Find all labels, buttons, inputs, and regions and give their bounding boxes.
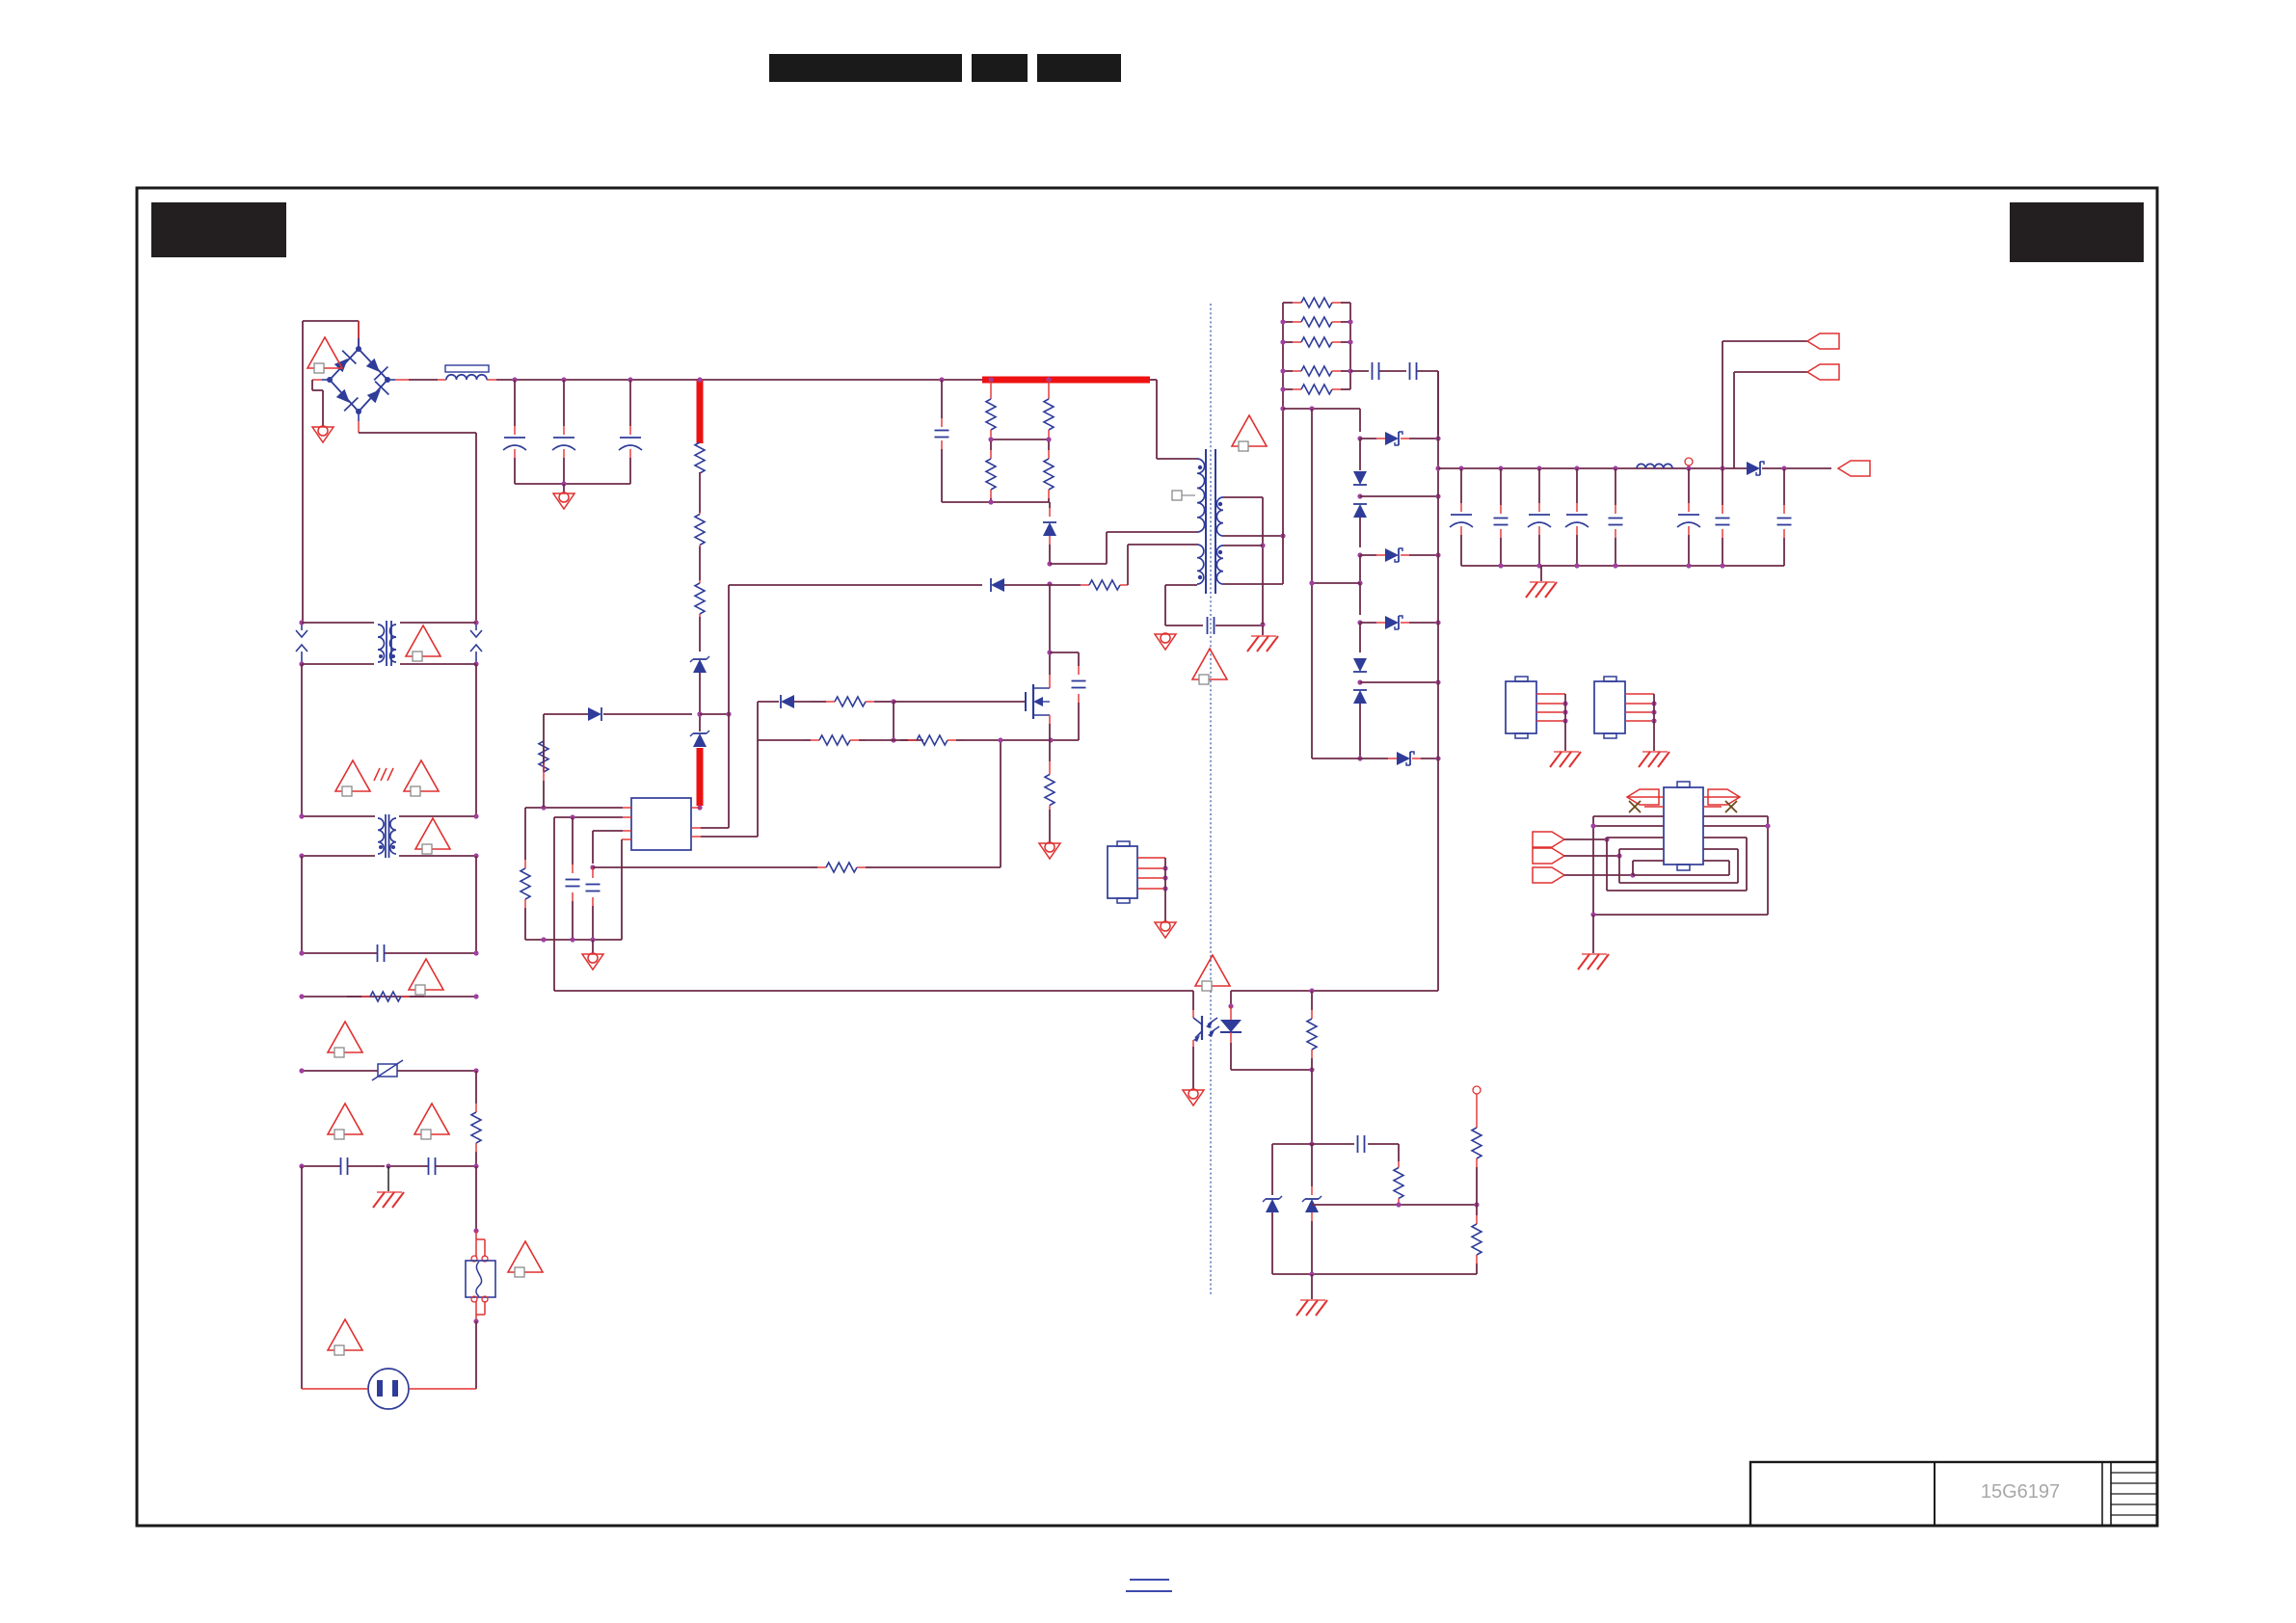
startup resistor R6: [543, 781, 545, 808]
node zd mid: [697, 711, 702, 716]
test point circle: [1685, 458, 1693, 466]
node rail c: [627, 377, 632, 382]
wire tap column: [1311, 409, 1313, 758]
resistor stack R21: [1283, 302, 1293, 304]
wire drain to primary: [1050, 563, 1107, 565]
diode rectifier D21: [1360, 438, 1376, 439]
ground input caps: [553, 493, 574, 509]
resistor R12: [900, 739, 908, 741]
wire: [699, 546, 701, 580]
inductor out L31: [1637, 464, 1672, 468]
opto light arrows: [1208, 1018, 1217, 1024]
title bar redacted blocks: [769, 54, 962, 82]
wire zd tap: [1360, 495, 1438, 497]
wire loop a: [1564, 838, 1607, 840]
node drain link: [1047, 561, 1052, 566]
wire stack left rail: [1282, 303, 1284, 409]
ic reference U3: [1506, 681, 1536, 733]
node pin3: [590, 865, 595, 869]
wire aux up: [1127, 545, 1129, 585]
node fuse bottom: [473, 1318, 478, 1323]
transformer T1 secondary winding B: [1216, 545, 1223, 584]
wire left rail lower: [301, 1166, 303, 1389]
wire ac top: [303, 320, 359, 322]
test point circle fb: [1473, 1086, 1481, 1094]
resistor divider Rd: [1048, 441, 1050, 450]
wire gate stub down: [893, 702, 894, 740]
wire u1 right pin vcc: [691, 807, 700, 809]
resistor gate R10: [811, 701, 826, 703]
wire cathode rail: [1437, 371, 1439, 991]
warning triangle cx1: [409, 959, 443, 990]
diode rectifier D22: [1360, 554, 1376, 556]
wire feedback long line right: [1231, 990, 1438, 992]
capacitor C8: [592, 867, 594, 878]
resistor stack R23: [1283, 341, 1293, 343]
common mode choke L1: [302, 622, 374, 624]
common mode choke L3: [302, 815, 375, 817]
resistor stack R25: [1283, 388, 1293, 390]
capacitor snub C22: [1409, 362, 1411, 380]
thermal fuse F1: [475, 1231, 477, 1257]
ground u1: [582, 954, 603, 970]
ground opto: [1183, 1090, 1204, 1105]
thick red vcc segment: [697, 748, 704, 806]
transformer T1 core: [1205, 449, 1207, 594]
wire tap row: [1283, 408, 1360, 410]
earth output: [1540, 566, 1542, 582]
left rail wire: [301, 664, 303, 816]
capacitor out C33: [1536, 466, 1541, 470]
capacitor CY1: [302, 1165, 340, 1167]
resistor start chain R3: [699, 580, 701, 583]
warning triangle pair upper: [335, 760, 370, 791]
ground primary bridge: [311, 380, 313, 390]
connector lug J6: [1533, 832, 1564, 847]
node cm1 tr: [473, 620, 478, 625]
capacitor snub C10: [1050, 652, 1079, 653]
warning triangle plug: [328, 1319, 362, 1350]
capacitor C input 2: [563, 380, 565, 426]
warning triangle rx1: [328, 1022, 362, 1052]
wire loop c: [1564, 874, 1633, 876]
wire feedback gnd: [1590, 912, 1595, 917]
wire fuse to plug: [475, 1321, 477, 1389]
capacitor C input 1: [514, 380, 516, 426]
wire: [699, 673, 701, 714]
resistor start chain R2: [699, 513, 701, 515]
resistor fb R42: [1398, 1161, 1400, 1168]
connector lug J8: [1533, 867, 1564, 883]
resistor source sense R13: [1049, 740, 1051, 761]
wire: [699, 617, 701, 652]
wire sense line: [593, 866, 811, 868]
wire: [1359, 583, 1361, 615]
connector lug J1: [1807, 333, 1839, 349]
ground aux: [1155, 634, 1176, 650]
wire feedback long line left: [554, 990, 1193, 992]
capacitor out C38: [1781, 466, 1786, 470]
warning triangle choke L1: [406, 625, 441, 656]
wire: [1359, 704, 1361, 758]
node gate: [884, 701, 894, 703]
node rail b: [561, 377, 566, 382]
diode out D31: [1747, 462, 1760, 475]
node y cap: [1260, 622, 1265, 626]
capacitor C7: [572, 817, 574, 865]
wire aux feed line: [729, 584, 982, 586]
wire: [699, 472, 701, 513]
wire loop outer: [1593, 815, 1664, 817]
wire tap bottom: [1312, 758, 1360, 759]
wire pin2 long drop: [553, 817, 555, 991]
diode snubber D3: [1049, 502, 1051, 508]
wire led return: [1231, 1069, 1312, 1071]
connector lug J2: [1807, 364, 1839, 380]
warning triangle near bridge: [307, 337, 342, 368]
resistor divider Ra: [988, 377, 993, 382]
ac plug P1: [368, 1369, 409, 1409]
node cm1 tl: [299, 620, 304, 625]
right rail wire upper: [475, 664, 477, 816]
connector lug J5: [1708, 789, 1740, 805]
wire secondary A bottom pin: [1223, 535, 1283, 537]
wire aux return: [1165, 584, 1197, 586]
wire to connector top: [1722, 341, 1723, 468]
resistor start chain R1: [699, 442, 701, 443]
resistor opto R41: [1311, 991, 1313, 1010]
zener pair ZD21: [1353, 471, 1367, 485]
zener ZD2: [699, 714, 701, 732]
wire right rail lower: [475, 1166, 477, 1231]
wire bridge output: [395, 379, 409, 381]
wire fb drop: [1311, 1070, 1313, 1144]
wire gate top row: [758, 701, 779, 703]
node rail a: [512, 377, 517, 382]
thick red drop main: [697, 380, 704, 443]
resistor fb R43: [1476, 1094, 1478, 1124]
marks red slashes: [374, 768, 380, 781]
inductor L2 filter choke: [445, 365, 489, 372]
wire snubber bottom rail: [942, 501, 1050, 503]
wire: [1359, 623, 1361, 652]
redacted label top-left: [151, 202, 286, 257]
redacted label top-right: [2010, 202, 2144, 262]
transformer T1 primary winding: [1197, 459, 1205, 532]
wire: [1359, 439, 1361, 470]
wire pin2: [623, 816, 631, 818]
capacitor out C32: [1498, 466, 1503, 470]
wire bridge bottom to right rail: [359, 432, 476, 434]
node fuse top: [473, 1228, 478, 1233]
wire output rail: [1438, 467, 1747, 469]
resistor divider Rb: [1046, 377, 1051, 382]
connector lug J4: [1627, 789, 1659, 805]
wire: [1359, 518, 1361, 547]
capacitor out C31: [1458, 466, 1463, 470]
page border frame: [137, 188, 2157, 1526]
earth feedback: [1582, 953, 1607, 955]
resistor right rail: [475, 1071, 477, 1104]
wire rails mid: [475, 856, 477, 953]
capacitor out C34: [1574, 466, 1579, 470]
capacitor fb C41: [1357, 1135, 1359, 1153]
wire stack to caps: [1350, 370, 1369, 372]
title block: [1750, 1462, 2157, 1526]
capacitor C input 3: [629, 380, 631, 426]
bridge rectifier BD1: [330, 349, 387, 412]
wire drain: [1049, 584, 1051, 675]
optocoupler U2 led: [1230, 991, 1232, 1006]
wire row4 taps: [1593, 825, 1664, 827]
capacitor CX1: [302, 952, 377, 954]
ground u5: [1155, 922, 1176, 938]
capacitor Y bridge C12: [1207, 617, 1209, 634]
wire loop b: [1564, 855, 1619, 857]
capacitor out C35: [1613, 466, 1617, 470]
spark gap right rail: [475, 623, 477, 630]
ground source: [1039, 843, 1060, 859]
diode aux D5: [991, 578, 1004, 592]
wire gnd rail u1: [525, 939, 622, 941]
warning triangle pair lower: [328, 1104, 362, 1134]
wire main dc rail: [487, 379, 496, 381]
wire fb top row: [1272, 1143, 1312, 1145]
resistor sense R9: [811, 866, 817, 868]
earth fb: [1300, 1299, 1325, 1301]
mosfet Q1: [1025, 692, 1027, 711]
spark gap left rail: [301, 623, 303, 630]
wire divider mid rail: [991, 439, 1049, 440]
transformer T1 secondary winding A: [1216, 497, 1223, 536]
wire cap bottom bus: [515, 483, 630, 485]
wire secondary B top pin: [1223, 545, 1263, 546]
wire fb mid row: [1311, 1196, 1313, 1198]
x mark left: [1644, 806, 1664, 808]
resistor aux R14: [1050, 584, 1081, 586]
zener ZD41: [1266, 1199, 1279, 1212]
warning triangle T1: [1232, 415, 1267, 446]
node cm1 bl: [299, 661, 304, 666]
wire zd2 tap: [1360, 681, 1438, 683]
wire fb bottom rail: [1272, 1273, 1477, 1275]
resistor stack R24: [1283, 370, 1293, 372]
wire stack right rail: [1349, 303, 1351, 389]
node ic vcc: [697, 805, 702, 810]
earth ground secondary: [1262, 625, 1264, 636]
wire low row: [758, 739, 804, 741]
warning triangle under T1: [1192, 649, 1227, 679]
capacitor out C36: [1686, 466, 1691, 470]
capacitor snubber C5: [939, 377, 944, 382]
connector lug J7: [1533, 848, 1564, 864]
wire rect column top: [1359, 409, 1361, 432]
wire u1 right pin3 drive: [691, 836, 701, 838]
varistor RV1: [302, 1070, 476, 1072]
node d1: [1357, 436, 1362, 440]
wire pin3 sense: [623, 830, 631, 832]
resistor R11: [804, 739, 811, 741]
shunt regulator TL431 U7: [1311, 1144, 1313, 1186]
wire to connector mid: [1733, 372, 1735, 468]
ic reference U5 small: [1108, 846, 1137, 898]
transformer T1 aux winding: [1197, 545, 1204, 584]
isolation barrier dashed line: [1210, 304, 1212, 1296]
warning triangle choke L3: [415, 818, 450, 849]
resistor divider Rc: [990, 441, 992, 450]
capacitor snub C21: [1372, 362, 1374, 380]
x mark right: [1703, 806, 1722, 808]
node aux: [726, 711, 731, 716]
capacitor out C37: [1720, 466, 1724, 470]
warning triangle fuse: [508, 1241, 543, 1272]
ic feedback U6: [1664, 787, 1703, 865]
wire cy middle to earth: [387, 1166, 389, 1192]
diode gate D4: [781, 695, 794, 708]
footer marks: [1130, 1579, 1169, 1581]
zener pair ZD22: [1353, 658, 1367, 672]
thick red rail segment: [982, 377, 1150, 384]
wire tap mid: [1312, 582, 1360, 584]
resistor pin1 R7: [524, 808, 526, 860]
warning triangle opto: [1195, 955, 1230, 986]
resistor fb R44: [1476, 1205, 1478, 1215]
svg-text:15G6197: 15G6197: [1981, 1481, 2060, 1503]
diode rectifier D24: [1360, 758, 1388, 759]
zener ZD1: [693, 659, 707, 673]
wire output bottom rail: [1461, 565, 1784, 567]
diode rectifier D23: [1360, 622, 1376, 624]
wire secondary B bottom pin: [1223, 583, 1283, 585]
optocoupler U2 transistor: [1192, 991, 1194, 1010]
wire pin4: [622, 838, 631, 840]
earth ground cy: [377, 1191, 402, 1193]
wire secondary top pin: [1223, 496, 1263, 498]
capacitor CY2: [428, 1157, 430, 1175]
wire u1 right pin2: [691, 827, 701, 829]
wire pin1 vref: [623, 807, 631, 809]
connector lug J3: [1838, 461, 1870, 476]
diode startup D2: [544, 713, 588, 715]
pwm controller U1: [631, 798, 691, 850]
node cm1 br: [473, 661, 478, 666]
resistor RX1: [302, 996, 476, 998]
wire: [1359, 555, 1361, 583]
label square T1: [1172, 491, 1182, 500]
ic reference U4: [1594, 681, 1625, 733]
resistor stack R22: [1283, 321, 1293, 323]
